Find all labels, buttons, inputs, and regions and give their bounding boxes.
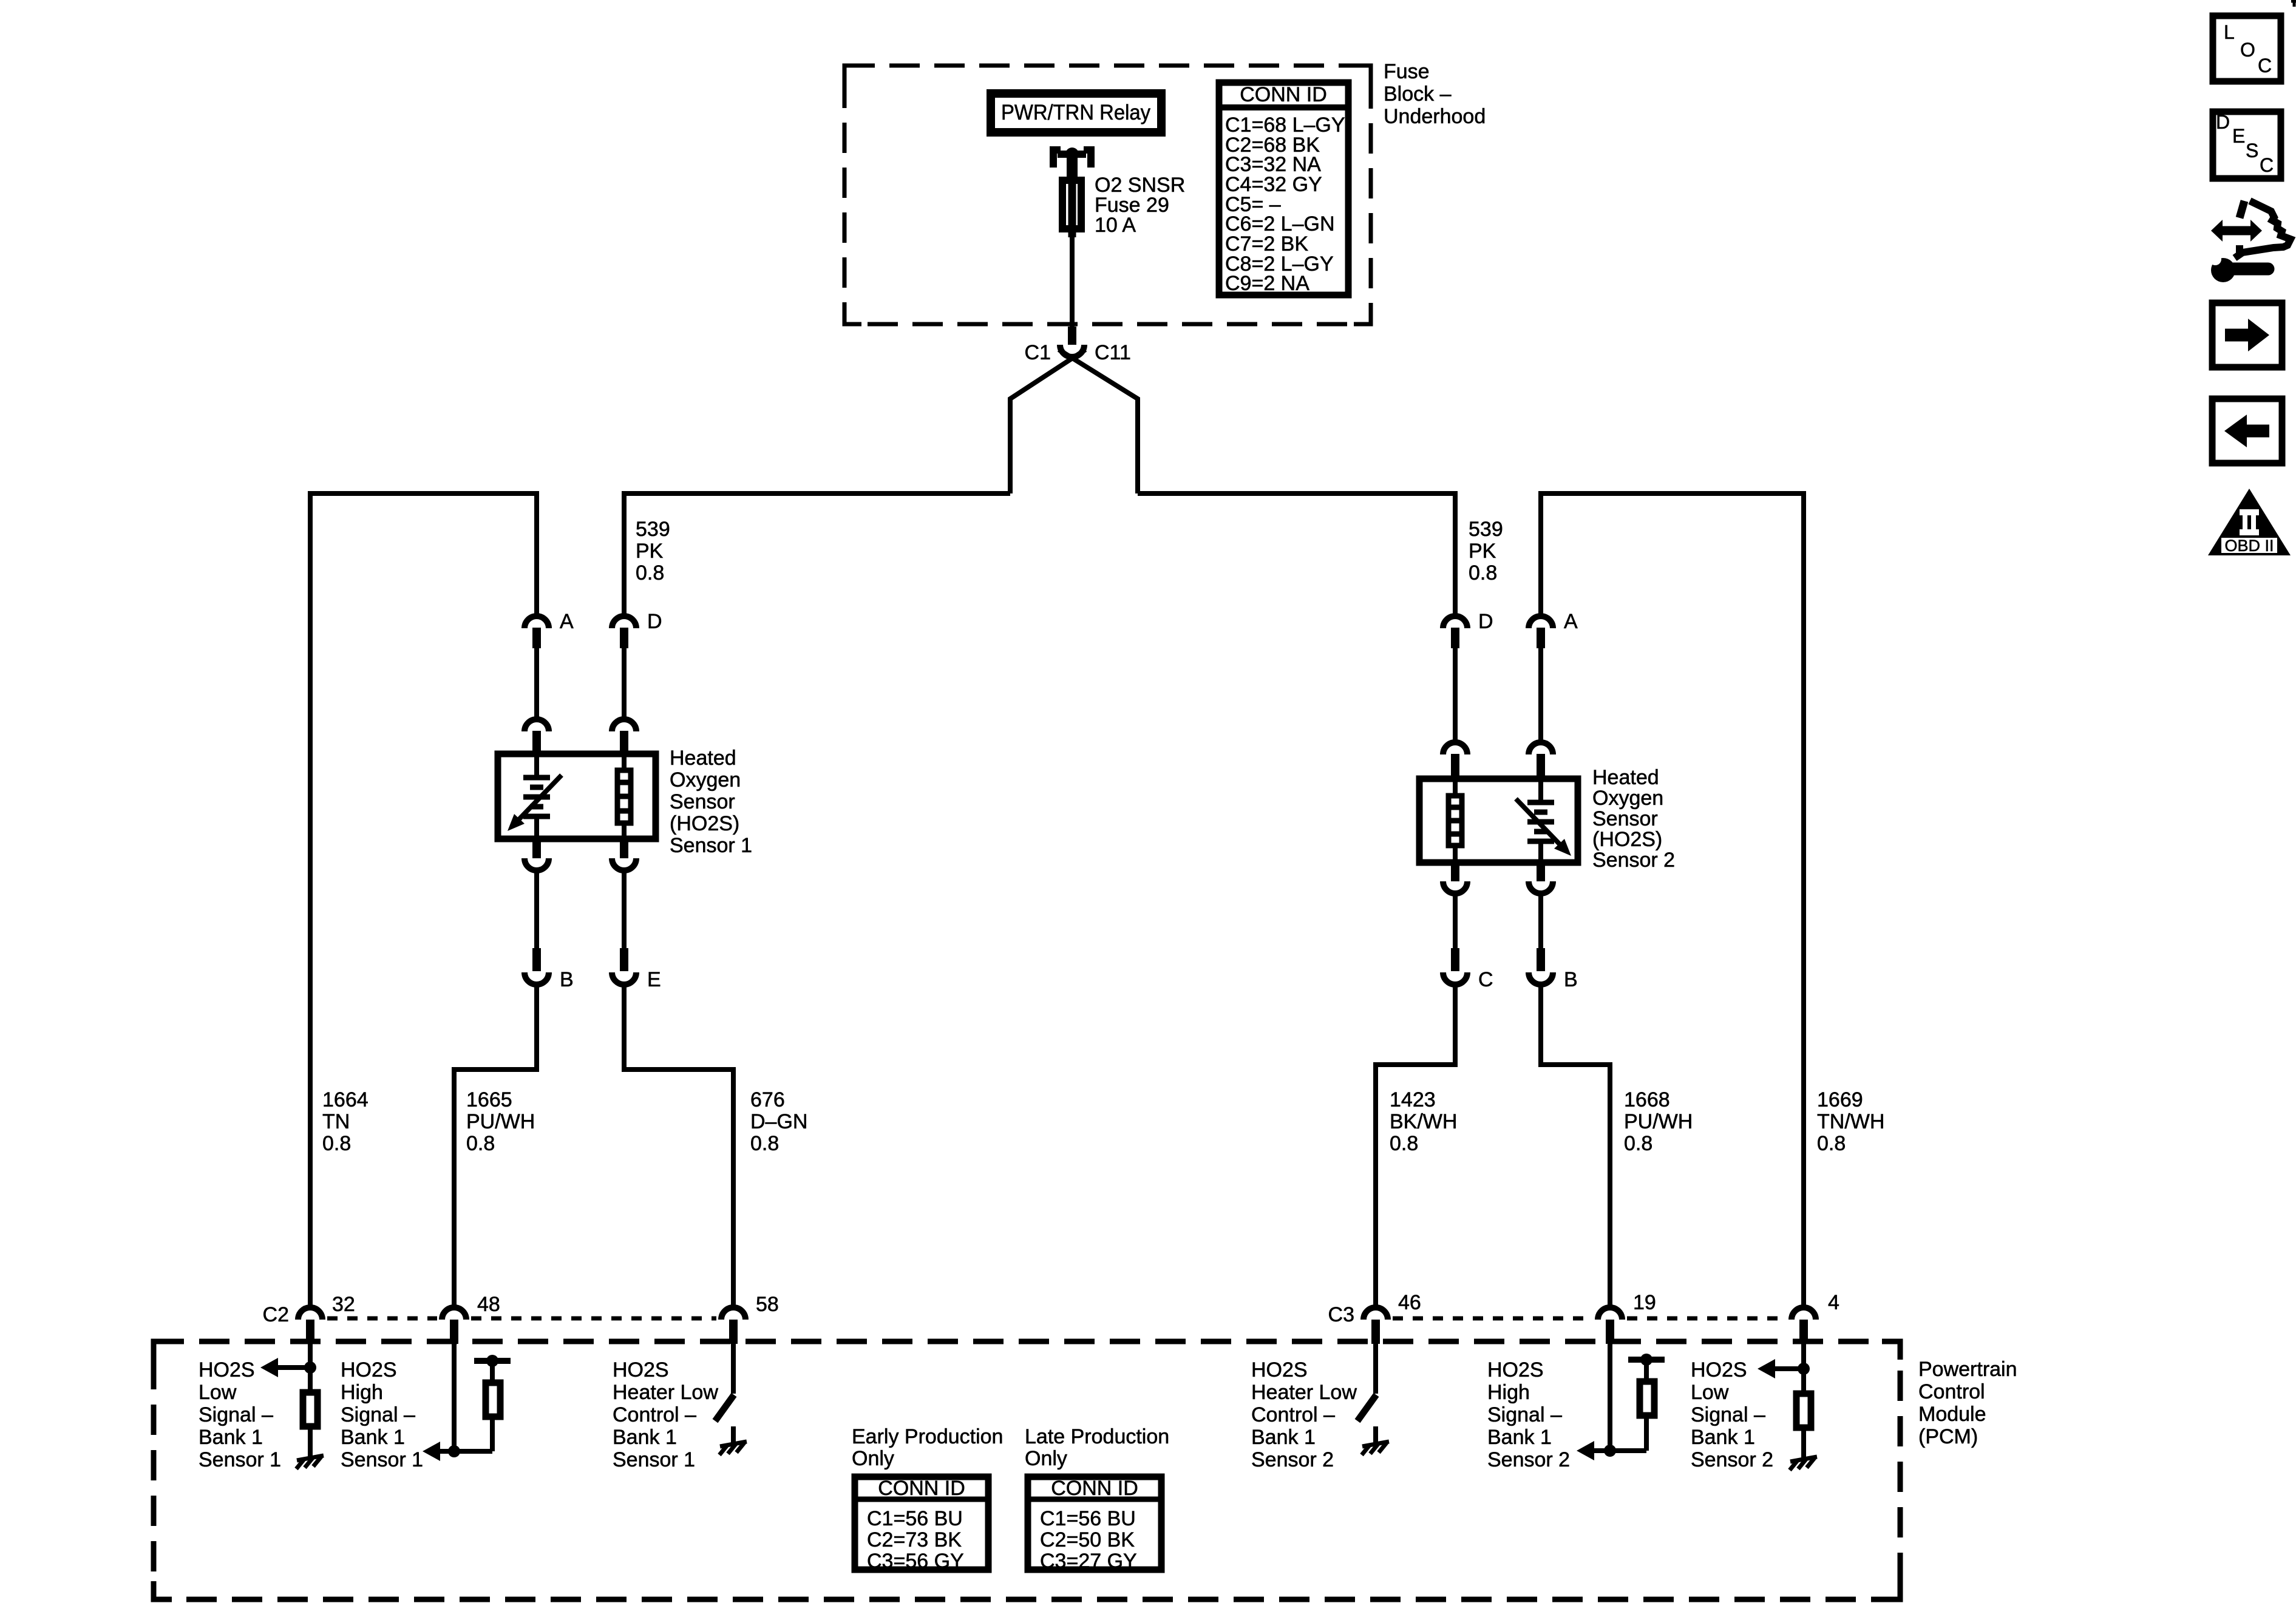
connector C2 dashed pin line (327, 1317, 716, 1321)
signal arrow HO2S high signal (pin 48) (423, 1442, 454, 1461)
svg-text:L: L (2224, 21, 2235, 43)
svg-text:Control –: Control – (1251, 1403, 1335, 1426)
svg-text:Only: Only (852, 1447, 894, 1470)
connector pin 4 (PCM C3) (1792, 1307, 1816, 1344)
wire HO2S2 signal loop (pin 4 riser and top run) (1541, 493, 1804, 1305)
svg-text:539: 539 (636, 518, 670, 541)
label wire 1423 BK/WH 0.8 (1390, 1088, 1457, 1155)
ground (pin 58 circuit) (719, 1442, 747, 1455)
label 539 PK 0.8 (left) (636, 518, 670, 585)
signal arrow HO2S low signal (pin 4) (1758, 1359, 1804, 1378)
node junction on pin 4 wire (1798, 1363, 1810, 1375)
connector pin 48 (PCM C2) (442, 1307, 466, 1344)
connector sensor2 pigtail D (1443, 742, 1467, 778)
svg-text:Oxygen: Oxygen (670, 768, 741, 792)
svg-text:1665: 1665 (466, 1088, 512, 1111)
node junction on pin 19 wire (1604, 1445, 1616, 1457)
wire to connector E (622, 873, 627, 948)
signal arrow HO2S low signal (pin 32) (260, 1358, 310, 1377)
wire pin 19 internal (1608, 1344, 1612, 1451)
svg-text:Signal –: Signal – (1691, 1403, 1765, 1426)
connector sensor1 pigtail A (525, 719, 549, 753)
svg-text:Sensor 1: Sensor 1 (199, 1448, 281, 1471)
svg-text:Sensor 2: Sensor 2 (1691, 1448, 1773, 1471)
svg-text:Early Production: Early Production (852, 1425, 1003, 1448)
svg-text:Only: Only (1025, 1447, 1067, 1470)
svg-text:1668: 1668 (1624, 1088, 1670, 1111)
connector C1/C11 male stub (1068, 327, 1076, 345)
svg-text:58: 58 (756, 1293, 779, 1316)
wire pin 4 internal (1801, 1344, 1806, 1391)
svg-text:0.8: 0.8 (466, 1132, 495, 1155)
label HO2S Low Signal - Bank 1 Sensor 1 (199, 1358, 281, 1471)
ground (pin 4 circuit) (1790, 1457, 1817, 1470)
resistor internal pull-up (pin 19) (1640, 1360, 1654, 1451)
resistor internal pull-down (pin 32) (303, 1392, 318, 1426)
svg-text:Low: Low (199, 1381, 237, 1404)
label Late Production Only (1025, 1425, 1169, 1470)
sensor B1S2 Heated Oxygen Sensor box (1419, 779, 1578, 863)
heater element (resistor) of sensor 2 (1449, 779, 1462, 863)
svg-text:HO2S: HO2S (341, 1358, 397, 1381)
label wire 1665 PU/WH 0.8 (466, 1088, 535, 1155)
svg-text:1423: 1423 (1390, 1088, 1436, 1111)
connector pin B label (HO2S2 harness) (1529, 948, 1578, 991)
svg-text:C9=2 NA: C9=2 NA (1225, 272, 1309, 295)
wire 1423 BK/WH from C to pin 46 (1376, 987, 1455, 1305)
icon diagnosis (double arrow, harness outline, wrench) (2209, 201, 2291, 282)
svg-text:Sensor 2: Sensor 2 (1251, 1448, 1334, 1471)
svg-text:Heater Low: Heater Low (1251, 1381, 1357, 1404)
wire D to sensor2 (1453, 648, 1458, 740)
wire resistor to ground (pin 4) (1801, 1431, 1806, 1459)
wire A to sensor1 (534, 648, 539, 717)
connector pin B (HO2S1 harness) (525, 948, 574, 991)
label Heated Oxygen Sensor (HO2S) Sensor 1 (670, 747, 752, 857)
svg-text:Sensor: Sensor (1592, 807, 1658, 830)
connector table CONN ID (early production) (855, 1477, 988, 1573)
resistor internal pull-up (pin 48) (486, 1361, 500, 1451)
icon OBD II triangle (2208, 489, 2291, 555)
svg-text:0.8: 0.8 (636, 561, 664, 585)
label HO2S Heater Low Control - Bank 1 Sensor 2 (1251, 1358, 1357, 1471)
wire 539 PK right run to HO2S2 heater (1138, 493, 1455, 614)
wire fuse to fuse-block edge (1070, 234, 1075, 327)
wire 1668 PU/WH from B to pin 19 (1541, 987, 1610, 1305)
node junction on pin 32 wire (304, 1361, 316, 1374)
label wire 1669 TN/WH 0.8 (1817, 1088, 1884, 1155)
svg-text:32: 32 (332, 1293, 355, 1316)
wire pin 48 internal (452, 1344, 457, 1451)
svg-text:D: D (647, 610, 662, 633)
fuse block underhood dashed enclosure (844, 66, 1371, 324)
svg-text:A: A (560, 610, 574, 633)
svg-text:Control –: Control – (613, 1403, 696, 1426)
label HO2S Low Signal - Bank 1 Sensor 2 (1691, 1358, 1773, 1471)
svg-text:HO2S: HO2S (199, 1358, 255, 1381)
svg-text:0.8: 0.8 (1817, 1132, 1846, 1155)
svg-text:Sensor: Sensor (670, 790, 735, 813)
svg-text:C3: C3 (1328, 1303, 1354, 1326)
fuse F29 O2 SNSR Fuse 29 10A (1062, 179, 1081, 237)
svg-text:(HO2S): (HO2S) (1592, 828, 1662, 851)
relay contact terminal bracket (1050, 146, 1095, 180)
svg-text:BK/WH: BK/WH (1390, 1110, 1457, 1133)
svg-text:CONN ID: CONN ID (1051, 1477, 1138, 1500)
svg-text:0.8: 0.8 (1469, 561, 1497, 585)
svg-text:Fuse: Fuse (1384, 60, 1430, 83)
sensing element (variable battery) of sensor 2 (1527, 779, 1554, 863)
svg-text:Signal –: Signal – (341, 1403, 415, 1426)
ground (pin 46 circuit) (1362, 1442, 1389, 1455)
wire junction to pull-up branch (pin 48) (454, 1449, 492, 1454)
svg-text:10 A: 10 A (1095, 214, 1136, 237)
page corner tick (2291, 0, 2296, 7)
heater element (resistor) of sensor 1 (617, 754, 631, 839)
wire switch to ground (pin 58) (731, 1426, 736, 1444)
sensor B1S1 Heated Oxygen Sensor box (498, 754, 656, 839)
icon DESC box (2213, 111, 2281, 178)
label HO2S High Signal - Bank 1 Sensor 2 (1487, 1358, 1570, 1471)
svg-text:(HO2S): (HO2S) (670, 812, 739, 835)
connector pin D (HO2S1 harness) (612, 610, 662, 648)
svg-text:Underhood: Underhood (1384, 105, 1486, 128)
svg-text:HO2S: HO2S (1487, 1358, 1544, 1381)
svg-text:A: A (1564, 610, 1578, 633)
label HO2S Heater Low Control - Bank 1 Sensor 1 (613, 1358, 718, 1471)
svg-text:HO2S: HO2S (613, 1358, 669, 1381)
svg-text:Signal –: Signal – (199, 1403, 273, 1426)
icon LOC box (2213, 16, 2281, 81)
label HO2S High Signal - Bank 1 Sensor 1 (341, 1358, 423, 1471)
wire HO2S1 signal loop (pin 32 riser and top run) (310, 493, 537, 1305)
svg-text:C3=56 GY: C3=56 GY (867, 1550, 964, 1573)
svg-text:PWR/TRN Relay: PWR/TRN Relay (1001, 101, 1150, 124)
svg-text:0.8: 0.8 (1390, 1132, 1418, 1155)
variable arrow of sensor 2 element (1516, 799, 1571, 856)
svg-text:676: 676 (750, 1088, 785, 1111)
svg-text:C2=73 BK: C2=73 BK (867, 1528, 962, 1551)
svg-text:0.8: 0.8 (322, 1132, 351, 1155)
label wire 1668 PU/WH 0.8 (1624, 1088, 1693, 1155)
svg-text:CONN ID: CONN ID (878, 1477, 965, 1500)
connector sensor2 pigtail C (below box) (1443, 864, 1467, 893)
svg-text:TN: TN (322, 1110, 350, 1133)
connector pin 19 (PCM C3) (1598, 1307, 1622, 1344)
icon back arrow box (2212, 399, 2282, 463)
label Fuse Block - Underhood (1384, 60, 1486, 128)
connector table CONN ID (late production) (1028, 1477, 1161, 1573)
svg-text:C1=56 BU: C1=56 BU (1040, 1507, 1136, 1530)
svg-text:B: B (1564, 968, 1578, 991)
connector C1/C11 female cup (1060, 345, 1084, 357)
svg-text:1669: 1669 (1817, 1088, 1863, 1111)
wire D to sensor1 (622, 648, 627, 717)
svg-text:D: D (1478, 610, 1493, 633)
svg-text:Control: Control (1918, 1380, 1985, 1403)
wire resistor to ground (pin 32) (308, 1429, 313, 1458)
svg-text:19: 19 (1633, 1291, 1656, 1314)
label wire 1664 TN 0.8 (322, 1088, 369, 1155)
wire pin 58 internal (731, 1344, 736, 1394)
label Early Production Only (852, 1425, 1003, 1470)
connector pin D (HO2S2 harness) (1443, 610, 1493, 648)
svg-text:Signal –: Signal – (1487, 1403, 1562, 1426)
svg-text:High: High (341, 1381, 383, 1404)
sensing element (variable battery) of sensor 1 (523, 754, 550, 839)
resistor internal pull-down (pin 4) (1796, 1394, 1811, 1428)
variable arrow of sensor 1 element (508, 775, 562, 831)
label wire 676 D-GN 0.8 (750, 1088, 807, 1155)
svg-text:PU/WH: PU/WH (1624, 1110, 1693, 1133)
internal supply bar (pin 19 branch) (1628, 1357, 1665, 1363)
relay K1 PWR/TRN Relay box (991, 93, 1161, 132)
connector C3 dashed pin line (1393, 1317, 1787, 1321)
svg-text:D–GN: D–GN (750, 1110, 807, 1133)
svg-text:C1=56 BU: C1=56 BU (867, 1507, 963, 1530)
svg-text:Sensor 1: Sensor 1 (613, 1448, 695, 1471)
svg-text:539: 539 (1469, 518, 1503, 541)
ground (pin 32 circuit) (296, 1456, 324, 1469)
svg-text:Bank 1: Bank 1 (1487, 1426, 1552, 1449)
svg-text:C: C (1478, 968, 1493, 991)
svg-text:E: E (647, 968, 661, 991)
connector pin 58 (PCM C2) (721, 1307, 746, 1344)
label Powertrain Control Module (PCM) (1918, 1358, 2017, 1448)
svg-text:0.8: 0.8 (1624, 1132, 1652, 1155)
svg-text:PK: PK (636, 540, 664, 563)
svg-text:Sensor 1: Sensor 1 (341, 1448, 423, 1471)
svg-text:B: B (560, 968, 574, 991)
svg-text:D: D (2216, 111, 2230, 133)
wire 1665 PU/WH from B to pin 48 (454, 987, 537, 1305)
wire pin 46 internal (1373, 1344, 1378, 1394)
connector sensor1 pigtail B (below box) (525, 840, 549, 870)
wire switch to ground (pin 46) (1373, 1426, 1378, 1444)
svg-text:Bank 1: Bank 1 (341, 1426, 405, 1449)
svg-text:CONN ID: CONN ID (1240, 83, 1327, 106)
svg-text:Sensor 1: Sensor 1 (670, 834, 752, 857)
svg-text:Sensor 2: Sensor 2 (1487, 1448, 1570, 1471)
svg-text:1664: 1664 (322, 1088, 369, 1111)
wire 539 PK left run to HO2S1 heater (624, 493, 1010, 614)
svg-text:C2: C2 (263, 1303, 289, 1326)
connector table CONN ID (fuse block) (1219, 83, 1348, 295)
wire A to sensor2 (1538, 648, 1543, 740)
wire to connector B (534, 873, 539, 948)
svg-text:Bank 1: Bank 1 (1251, 1426, 1316, 1449)
svg-text:HO2S: HO2S (1251, 1358, 1308, 1381)
svg-text:Bank 1: Bank 1 (613, 1426, 677, 1449)
switch driver low-side (pin 58) (715, 1395, 734, 1421)
connector pin A (HO2S2 harness) (1529, 610, 1578, 648)
svg-text:OBD II: OBD II (2224, 537, 2274, 555)
svg-text:HO2S: HO2S (1691, 1358, 1747, 1381)
svg-text:C: C (2258, 55, 2272, 76)
svg-text:C2=50 BK: C2=50 BK (1040, 1528, 1135, 1551)
connector pin 32 (PCM C2) (298, 1307, 322, 1344)
svg-text:TN/WH: TN/WH (1817, 1110, 1884, 1133)
internal supply bar (pin 48 branch) (474, 1358, 511, 1364)
wire to connector B (1538, 896, 1543, 948)
wire 676 D-GN from E to pin 58 (624, 987, 733, 1305)
connector sensor1 pigtail D (612, 719, 636, 753)
svg-text:(PCM): (PCM) (1918, 1425, 1978, 1448)
svg-text:0.8: 0.8 (750, 1132, 779, 1155)
svg-text:Sensor 2: Sensor 2 (1592, 849, 1675, 872)
wire X split right branch (1059, 350, 1138, 493)
svg-text:Heated: Heated (1592, 766, 1659, 789)
connector pin A (HO2S1 harness) (525, 610, 574, 648)
svg-text:Heated: Heated (670, 747, 736, 770)
signal arrow HO2S high signal (pin 19) (1577, 1441, 1610, 1460)
svg-text:Late Production: Late Production (1025, 1425, 1169, 1448)
svg-text:E: E (2232, 125, 2245, 147)
svg-text:PU/WH: PU/WH (466, 1110, 535, 1133)
wire X split left branch (1010, 350, 1085, 493)
svg-text:PK: PK (1469, 540, 1496, 563)
svg-text:Heater Low: Heater Low (613, 1381, 718, 1404)
wire junction to pull-up branch (pin 19) (1610, 1448, 1646, 1453)
connector pin 46 (PCM C3) (1364, 1307, 1388, 1344)
switch driver low-side (pin 46) (1357, 1395, 1376, 1421)
PCM dashed enclosure (154, 1341, 1900, 1599)
svg-text:Bank 1: Bank 1 (1691, 1426, 1755, 1449)
svg-text:C11: C11 (1095, 341, 1131, 364)
svg-text:Low: Low (1691, 1381, 1729, 1404)
node internal supply (pin 48 branch) (486, 1355, 498, 1367)
svg-text:C1: C1 (1025, 341, 1051, 364)
connector sensor1 pigtail E (below box) (612, 840, 636, 870)
node junction on pin 48 wire (448, 1445, 460, 1457)
svg-text:Powertrain: Powertrain (1918, 1358, 2017, 1381)
svg-text:High: High (1487, 1381, 1530, 1404)
icon forward arrow box (2212, 303, 2282, 367)
svg-text:Bank 1: Bank 1 (199, 1426, 263, 1449)
svg-text:Block –: Block – (1384, 83, 1452, 106)
label O2 SNSR Fuse 29 10 A (1095, 174, 1185, 237)
wire to connector C (1453, 896, 1458, 948)
svg-text:46: 46 (1398, 1291, 1421, 1314)
connector pin E (HO2S1 harness) (612, 948, 661, 991)
svg-text:Oxygen: Oxygen (1592, 787, 1663, 810)
svg-text:Module: Module (1918, 1403, 1986, 1426)
node internal supply (pin 19 branch) (1640, 1354, 1652, 1366)
label 539 PK 0.8 (right) (1469, 518, 1503, 585)
svg-text:C: C (2260, 154, 2274, 176)
connector sensor2 pigtail B (below box) (1529, 864, 1553, 893)
svg-text:48: 48 (477, 1293, 500, 1316)
svg-text:O: O (2240, 39, 2255, 61)
connector sensor2 pigtail A (1529, 742, 1553, 778)
svg-text:4: 4 (1828, 1291, 1839, 1314)
svg-text:S: S (2246, 140, 2258, 161)
wire pin 32 internal (308, 1344, 313, 1389)
svg-text:C3=27 GY: C3=27 GY (1040, 1550, 1137, 1573)
label Heated Oxygen Sensor (HO2S) Sensor 2 (1592, 766, 1675, 872)
connector pin C (HO2S2 harness) (1443, 948, 1493, 991)
